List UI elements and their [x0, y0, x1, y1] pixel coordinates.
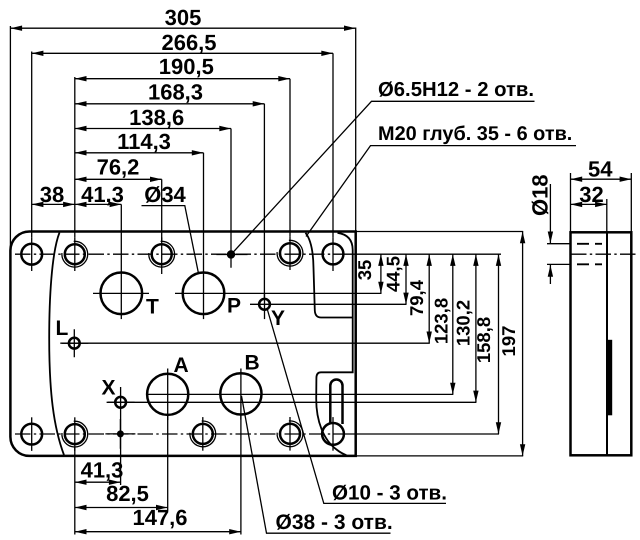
dimension 32: [571, 182, 607, 233]
corner hole bottom-right: [322, 423, 344, 445]
dimension 266.5: [32, 30, 333, 55]
svg-text:35: 35: [354, 260, 375, 281]
svg-text:44,5: 44,5: [383, 256, 404, 292]
dimension 54: [571, 157, 632, 233]
svg-text:X: X: [102, 377, 116, 400]
extension line dim 305 left: [9, 26, 11, 250]
threaded hole M20 top 1: [62, 241, 88, 267]
crosshair hole 6.5 bottom: [105, 419, 135, 449]
crosshair vertical hole T: [120, 268, 122, 320]
dimension 147.6: [75, 505, 241, 532]
svg-text:41,3: 41,3: [81, 458, 124, 483]
extension line dim 41.3 bottom through X: [120, 387, 122, 485]
threaded hole M20 top 2: [149, 241, 175, 267]
side view hole dashed lines: [577, 243, 602, 245]
extension line dims 190.5 138.6 114.3 76.2 left column: [74, 77, 76, 237]
svg-text:P: P: [227, 295, 241, 318]
inner contour right side: [316, 233, 353, 455]
crosshair vertical threaded hole bottom 3: [289, 417, 291, 451]
svg-text:38: 38: [40, 182, 64, 207]
centerline bottom row: [15, 433, 348, 435]
svg-text:197: 197: [498, 326, 519, 357]
bottom row ext to dim 158.8: [348, 433, 499, 435]
crosshair vertical hole B: [240, 369, 242, 420]
extension line dim 114.3 right: [203, 153, 205, 268]
side view outline: [571, 232, 632, 455]
svg-text:130,2: 130,2: [453, 300, 474, 346]
centerline L to dim 79.4: [62, 342, 430, 344]
extension line dim 266.5 right: [332, 53, 334, 237]
leader diameter 38: [242, 396, 393, 534]
extension line dim 138.6 right: [230, 129, 232, 242]
threaded hole M20 bottom 2: [190, 421, 216, 447]
svg-text:Ø38 - 3 отв.: Ø38 - 3 отв.: [276, 511, 393, 534]
label diameter 34: [142, 182, 199, 274]
centerline Y to dim 44.5: [250, 303, 407, 305]
leader 6.5H12: [234, 79, 535, 252]
hole 6.5 bottom dot: [117, 430, 124, 437]
extension line dim 266.5 left: [31, 52, 33, 238]
extension line dim 76.2 right: [161, 179, 163, 241]
crosshair horizontal hole X: [107, 401, 135, 403]
inner contour right upper notch: [306, 233, 353, 318]
inner contour left edge: [49, 233, 64, 456]
plate outline front view: [10, 232, 355, 456]
svg-text:123,8: 123,8: [431, 298, 452, 344]
svg-text:Ø18: Ø18: [528, 174, 553, 216]
svg-text:Ø10 - 3 отв.: Ø10 - 3 отв.: [332, 481, 447, 504]
crosshair vertical corner hole top-right: [332, 237, 334, 271]
extension line dim 82.5 through A: [167, 415, 169, 511]
top row ext to vertical dims: [348, 253, 501, 255]
extension line bottom dims left column: [74, 447, 76, 535]
leader M20: [306, 123, 576, 237]
extension line dim 168.3 right: [263, 104, 265, 299]
crosshair vertical corner hole bottom-right: [332, 417, 334, 451]
extension line dim 305 right: [355, 28, 357, 232]
vertical dimension 130.2: [453, 254, 476, 402]
dimension 76.2: [75, 155, 162, 180]
dimension 41.3 top: [75, 182, 124, 207]
extension line dim 147.6 through B: [240, 415, 242, 535]
dimension 114.3: [75, 129, 204, 154]
svg-text:41,3: 41,3: [81, 182, 124, 207]
threaded hole M20 bottom 3: [277, 421, 303, 447]
hole P: [183, 273, 225, 315]
plate top ext to dim 197: [356, 231, 523, 233]
threaded hole M20 bottom 1: [62, 421, 88, 447]
crosshair hole 6.5 top: [216, 242, 247, 268]
crosshair vertical hole P: [203, 268, 205, 320]
svg-text:32: 32: [579, 182, 603, 207]
leader diameter 10: [268, 310, 447, 504]
threaded hole M20 top 3: [277, 240, 303, 266]
side view center line: [571, 253, 639, 255]
svg-text:305: 305: [165, 5, 202, 30]
extension line dim 190.5 right: [289, 79, 291, 237]
vertical dimension 197: [498, 232, 523, 456]
crosshair vertical threaded hole top 1: [74, 237, 76, 271]
svg-text:79,4: 79,4: [406, 279, 427, 316]
crosshair vertical threaded hole bottom 2: [202, 417, 204, 451]
dimension 82.5: [75, 481, 168, 508]
plate bottom ext to dim 197: [356, 455, 523, 457]
hole B: [220, 373, 261, 414]
dimension 190.5: [75, 54, 290, 79]
vertical dimension 123.8: [431, 254, 453, 394]
svg-text:B: B: [245, 352, 260, 375]
crosshair vertical threaded hole top 3: [289, 236, 291, 270]
crosshair vertical hole A: [167, 369, 169, 421]
svg-text:Ø6.5H12 - 2 отв.: Ø6.5H12 - 2 отв.: [378, 79, 534, 101]
crosshair vertical hole Y: [264, 294, 266, 319]
extension line dim 41.3 top right: [120, 204, 122, 267]
crosshair hole L: [60, 329, 88, 357]
vertical dimension 158.8: [473, 254, 499, 434]
corner hole bottom-left: [21, 424, 42, 445]
vertical dimension 35: [354, 254, 381, 293]
svg-text:T: T: [146, 296, 159, 319]
side view inner line: [606, 233, 608, 455]
svg-text:54: 54: [588, 157, 613, 182]
svg-text:114,3: 114,3: [117, 129, 171, 154]
svg-text:Ø34: Ø34: [144, 182, 186, 207]
vertical dimension 44.5: [383, 254, 407, 304]
hole T: [101, 273, 143, 315]
vertical dimension 79.4: [406, 254, 429, 343]
hole X: [115, 397, 126, 408]
svg-text:L: L: [56, 317, 69, 340]
svg-text:266,5: 266,5: [161, 30, 216, 55]
crosshair vertical threaded hole bottom 1: [74, 417, 76, 451]
dimension 138.6: [75, 105, 231, 130]
dimension diameter 18: [528, 174, 553, 284]
crosshair vertical corner hole top-left: [31, 237, 33, 271]
corner hole top-right: [323, 244, 344, 265]
dimension 38: [32, 182, 75, 207]
dimension 168.3: [75, 80, 265, 105]
svg-text:82,5: 82,5: [106, 481, 149, 506]
corner hole top-left: [21, 244, 42, 265]
hole 6.5 top dot: [227, 250, 235, 258]
svg-text:158,8: 158,8: [473, 317, 494, 363]
svg-text:168,3: 168,3: [148, 80, 203, 105]
centerline X to dim 130.2: [108, 401, 476, 403]
side view slot bar: [607, 340, 612, 416]
svg-text:Y: Y: [271, 307, 285, 330]
svg-text:A: A: [174, 354, 189, 377]
slot keyhole: [330, 380, 342, 425]
svg-text:190,5: 190,5: [159, 54, 214, 79]
dimension 305: [10, 5, 355, 30]
svg-text:138,6: 138,6: [129, 105, 184, 130]
hole L: [69, 338, 80, 349]
dimension 41.3 bottom: [75, 458, 124, 483]
centerline P to dim 35: [175, 292, 382, 294]
hole Y: [259, 299, 270, 310]
svg-text:М20 глуб. 35 - 6 отв.: М20 глуб. 35 - 6 отв.: [378, 123, 572, 145]
crosshair vertical corner hole bottom-left: [31, 417, 33, 451]
centerline T: [93, 292, 149, 294]
centerline A B to dim 123.8: [146, 393, 453, 395]
centerline top row: [15, 253, 348, 255]
side view hole ext lines: [547, 244, 570, 265]
hole A: [147, 374, 188, 415]
svg-text:147,6: 147,6: [132, 505, 187, 530]
crosshair vertical threaded hole top 2: [161, 237, 163, 274]
svg-text:76,2: 76,2: [97, 155, 140, 180]
